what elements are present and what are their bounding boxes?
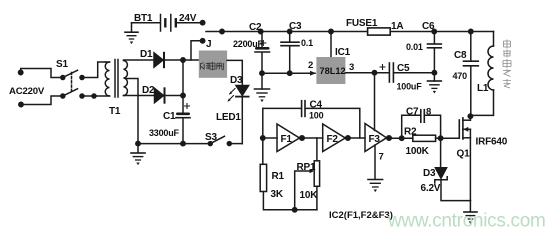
- wire D2 cathode to junction: [166, 93, 186, 97]
- zener diode D3: [435, 138, 447, 183]
- ground C2: [255, 89, 270, 102]
- battery BT1 wire left: [132, 22, 160, 24]
- resistor R1: [260, 164, 266, 191]
- transistor Q1 IRF640: [459, 114, 472, 201]
- svg-text:S3: S3: [205, 132, 217, 143]
- wire F1 input branch: [261, 108, 277, 164]
- capacitor C6: [428, 32, 442, 82]
- transformer T1 secondary winding: [124, 61, 128, 96]
- svg-text:RP1: RP1: [297, 162, 316, 173]
- svg-text:10K: 10K: [300, 190, 319, 201]
- svg-text:F2: F2: [327, 134, 339, 145]
- svg-text:2: 2: [308, 60, 313, 71]
- ground bottom left: [131, 144, 145, 166]
- LED D3: [236, 86, 249, 97]
- svg-text:IC2(F1,F2&F3): IC2(F1,F2&F3): [329, 210, 393, 221]
- wire F1 out to F2 in: [302, 137, 323, 139]
- wire T1 secondary bottom to D2: [124, 95, 155, 97]
- wire S1 upper to T1 primary top: [82, 62, 106, 78]
- wire AC upper to S1: [21, 69, 61, 78]
- capacitor C2: [255, 32, 270, 90]
- svg-text:7: 7: [379, 152, 384, 163]
- svg-text:R2: R2: [404, 127, 417, 138]
- wire relay to LED D3: [227, 60, 242, 85]
- bottom rail: [136, 141, 211, 145]
- svg-text:T1: T1: [109, 106, 121, 117]
- svg-text:F1: F1: [281, 134, 293, 145]
- wire R2 right to gate node: [436, 136, 443, 140]
- wire rectifier junction vertical: [182, 60, 184, 112]
- potentiometer RP1: [314, 161, 319, 210]
- wire zener to ground rail: [441, 181, 470, 201]
- switch S1 upper pole: [61, 70, 84, 79]
- grey vertical text column 电磁能发送: [503, 40, 511, 89]
- wire S1 lower to T1 primary bottom: [82, 94, 110, 98]
- capacitor C5: [380, 63, 393, 82]
- capacitor C3: [281, 32, 299, 76]
- LED D3 emission arrows: [227, 89, 235, 102]
- inductor L1: [488, 32, 494, 91]
- svg-text:100: 100: [309, 111, 324, 121]
- ground Q1 source: [464, 201, 477, 224]
- wire T1 center tap down: [126, 79, 138, 144]
- ground BT1: [125, 23, 138, 44]
- RP1 wiper arrow: [295, 169, 315, 210]
- inverter F3: [365, 124, 391, 152]
- wire C4 to F3 input: [306, 108, 360, 138]
- switch S1 lower pole: [61, 89, 84, 98]
- svg-text:AC220V: AC220V: [9, 86, 45, 97]
- wire C5 to C6 node: [394, 71, 437, 75]
- battery BT1 wire right: [177, 21, 205, 25]
- wire C1 to bottom rail: [182, 119, 184, 144]
- svg-text:2200uF: 2200uF: [233, 39, 264, 49]
- wire L1 bottom to drain node: [470, 90, 493, 115]
- wire LED1 to S3: [241, 97, 243, 143]
- svg-text:100uF: 100uF: [397, 82, 423, 92]
- battery BT1: [161, 15, 176, 32]
- svg-text:C8: C8: [454, 50, 467, 61]
- svg-text:FUSE1: FUSE1: [346, 18, 378, 29]
- capacitor C4: [302, 101, 305, 117]
- wire F2 out to F3 in: [348, 137, 365, 139]
- wire RP1 top lead: [316, 138, 318, 161]
- svg-text:IC1: IC1: [335, 47, 351, 58]
- S1 gang dashed link: [71, 73, 73, 93]
- svg-text:C6: C6: [422, 21, 435, 32]
- inverter F2: [323, 124, 351, 152]
- wire IC1 pin3 to C5: [345, 71, 388, 75]
- svg-text:8: 8: [426, 107, 431, 118]
- svg-text:S1: S1: [56, 59, 68, 70]
- AC220V input terminal lower: [19, 102, 23, 106]
- capacitor C1: [176, 104, 190, 118]
- transformer T1 core: [115, 60, 118, 98]
- svg-text:J: J: [206, 39, 211, 50]
- svg-text:F3: F3: [369, 134, 381, 145]
- svg-text:www.cntronics.com: www.cntronics.com: [387, 211, 546, 232]
- diode D1: [154, 53, 164, 67]
- wire AC lower to S1: [21, 96, 61, 105]
- wire IC1 pin2: [262, 71, 316, 76]
- svg-text:3300uF: 3300uF: [149, 128, 180, 138]
- svg-text:C3: C3: [289, 21, 302, 32]
- svg-text:D1: D1: [140, 49, 153, 60]
- op-amp U1 IC1 78L12 box: [316, 57, 345, 84]
- wire R1 bottom rail: [263, 192, 317, 213]
- svg-text:C2: C2: [249, 22, 262, 33]
- ground C6: [428, 81, 442, 94]
- svg-text:Q1: Q1: [457, 149, 471, 160]
- svg-text:3K: 3K: [271, 189, 284, 200]
- node +24V rail: [206, 29, 494, 33]
- AC220V input terminal upper: [19, 70, 23, 74]
- svg-text:3: 3: [349, 62, 354, 73]
- ground F3 pin7: [368, 145, 383, 192]
- fuse FUSE1: [368, 28, 391, 35]
- wire gate node to Q1 gate: [441, 137, 459, 139]
- transformer T1 primary winding: [105, 62, 109, 96]
- svg-text:LED1: LED1: [216, 112, 241, 123]
- svg-text:C5: C5: [397, 63, 410, 74]
- svg-text:C7: C7: [406, 107, 419, 118]
- svg-text:78L12: 78L12: [320, 66, 346, 76]
- wire T1 secondary top to D1: [124, 59, 155, 61]
- svg-text:IRF640: IRF640: [476, 137, 508, 148]
- wire F3 out to R2 node: [389, 136, 413, 140]
- svg-text:100K: 100K: [406, 146, 430, 157]
- svg-text:C4: C4: [310, 100, 323, 111]
- svg-text:470: 470: [453, 71, 468, 81]
- svg-text:24V: 24V: [179, 13, 197, 24]
- capacitor C7 loop: [402, 110, 441, 139]
- resistor R2: [413, 135, 436, 141]
- capacitor C8: [464, 61, 479, 116]
- svg-text:1A: 1A: [391, 21, 403, 32]
- switch S3: [208, 136, 242, 145]
- inverter F1: [277, 124, 304, 152]
- wire C8 branch: [470, 32, 472, 61]
- svg-text:BT1: BT1: [134, 13, 153, 24]
- svg-text:D2: D2: [142, 85, 155, 96]
- svg-text:C1: C1: [163, 111, 176, 122]
- wire oscillator feedback top: [263, 107, 301, 109]
- svg-text:L1: L1: [477, 83, 489, 94]
- diode D2: [155, 88, 165, 102]
- wire J branch: [191, 39, 205, 60]
- svg-text:R1: R1: [272, 171, 285, 182]
- wire IC2 power pin down to F3: [374, 73, 376, 131]
- wire D1 cathode to relay: [165, 58, 199, 62]
- svg-text:0.1: 0.1: [301, 38, 313, 48]
- wire rail to IC1 top: [329, 29, 333, 57]
- svg-text:D3: D3: [230, 75, 243, 86]
- svg-text:0.01: 0.01: [406, 42, 423, 52]
- svg-text:6.2V: 6.2V: [421, 183, 441, 194]
- relay box text 继电器J: [201, 62, 224, 71]
- svg-text:D3: D3: [423, 168, 436, 179]
- relay box J: [199, 51, 227, 78]
